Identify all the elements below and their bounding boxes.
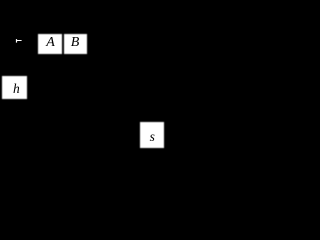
tape cell A label — [46, 36, 55, 50]
tape cell B label — [71, 36, 80, 50]
tape left endmarker (turnstile glyph) — [0, 0, 271, 151]
state box s — [140, 122, 164, 149]
head box h — [2, 76, 26, 99]
tape cell B (box) — [64, 34, 87, 54]
head label h — [13, 82, 20, 96]
state label s — [150, 130, 155, 144]
tape cell A (box) — [38, 34, 62, 54]
